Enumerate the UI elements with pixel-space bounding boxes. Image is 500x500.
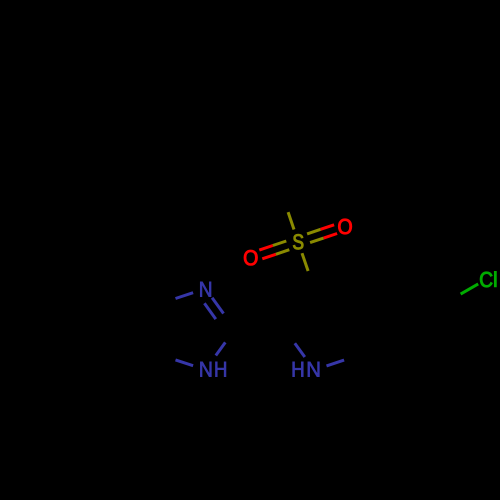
atom label O (left sulfonyl oxygen)	[244, 250, 257, 265]
bond C2-C2' (benzimidazole-indole biaryl link)	[235, 328, 285, 331]
bond C5'=C6' (indole benzene)	[434, 304, 448, 354]
bond C3a'=C4' (indole benzene)	[362, 279, 405, 308]
atom label Cl (chlorine)	[480, 271, 496, 287]
bond N3=C2 (benzimidazole C2=N3 double bond)	[204, 298, 235, 329]
atom label S (sulfonyl sulfur)	[293, 234, 303, 249]
atom label NH (benzimidazole N1-H)	[200, 362, 226, 377]
bond N1'-C7a' (indole)	[327, 354, 362, 366]
bond S=O (left sulfonyl oxygen)	[259, 241, 289, 259]
atom label HN (indole N1'-H)	[293, 362, 320, 377]
atom label N (benzimidazole N3)	[200, 282, 211, 297]
bond C3a-C4 (benzimidazole benzene)	[115, 279, 158, 304]
bond C7a'-C3a' (indole ring fusion)	[360, 304, 363, 354]
bond C6'-C7' (indole benzene)	[405, 354, 448, 379]
bond C5-C6 (benzimidazole benzene)	[70, 304, 73, 354]
bond S=O (right sulfonyl oxygen)	[307, 225, 337, 243]
bond C2'=C3' (indole double bond)	[285, 289, 317, 330]
bond C7'=C7a' (indole benzene)	[362, 350, 405, 379]
bond C4=C5 (benzimidazole benzene)	[71, 279, 114, 308]
bond S-C3' (sulfonyl to indole C3')	[302, 253, 314, 289]
bond C7a=C3a (benzimidazole ring fusion)	[148, 304, 158, 354]
bond C7-C7a (benzimidazole benzene)	[115, 354, 158, 379]
bond N1'-C2' (indole NH-C2)	[285, 329, 305, 357]
atom label O (right sulfonyl oxygen)	[338, 219, 351, 234]
bond C4'-C5' (indole benzene)	[405, 279, 443, 304]
bond S-CH3 (S-methyl)	[282, 195, 294, 230]
bond N1-C2 (benzimidazole N1(H)-C2)	[216, 329, 235, 355]
bond N1-C7a (benzimidazole)	[158, 354, 193, 366]
bond C6=C7 (benzimidazole benzene)	[71, 350, 114, 379]
bond C3'-C3a' (indole)	[314, 289, 362, 305]
bond C5'-Cl (chloro substituent)	[443, 284, 478, 304]
bond N3-C3a (benzimidazole)	[158, 293, 193, 305]
